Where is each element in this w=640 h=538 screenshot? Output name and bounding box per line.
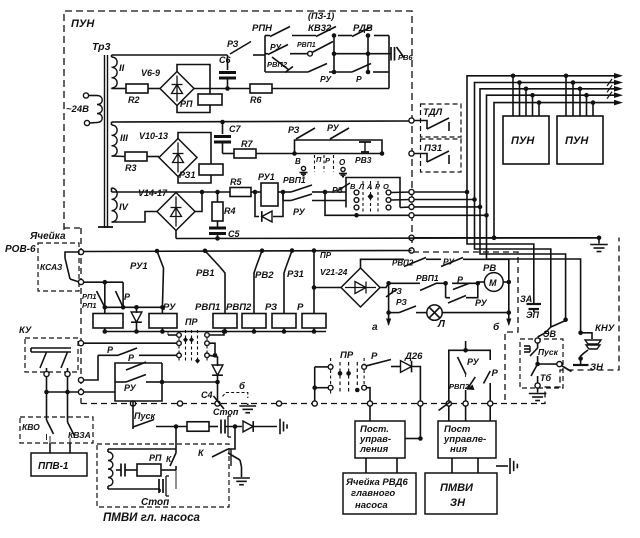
terminal top of Pusk cell (535, 338, 540, 343)
svg-text:насоса: насоса (355, 500, 388, 511)
svg-text:Тр3: Тр3 (92, 41, 111, 53)
svg-text:О: О (339, 158, 346, 167)
arrow b (508, 313, 510, 325)
svg-text:V21-24: V21-24 (320, 267, 348, 277)
svg-text:ТДЛ: ТДЛ (423, 107, 443, 118)
wire R7 to frame (256, 153, 295, 155)
svg-text:ПР: ПР (320, 251, 332, 260)
selector dashed columns (362, 181, 364, 213)
electromagnet ZA EP plates (527, 303, 542, 305)
winding III (112, 125, 118, 156)
svg-text:РВ1: РВ1 (196, 268, 214, 279)
wire bridge V21 top to rail (361, 259, 405, 268)
svg-text:РЗ: РЗ (396, 297, 407, 307)
contact RV6 blade (397, 47, 405, 58)
bridge3 right corner to top wire (195, 192, 202, 212)
wire down from bus line1 to EP (467, 192, 534, 303)
PMVI bottom wire (108, 488, 160, 490)
svg-text:КНУ: КНУ (595, 323, 616, 334)
winding IV (112, 188, 118, 222)
contact Tb bypass blade (557, 362, 562, 367)
selector contact circles left column (354, 190, 359, 195)
capacitor C5 (217, 221, 219, 227)
contact PZ1 (414, 154, 427, 163)
wire Tb bypass (538, 363, 557, 365)
contact RZ row2 blade (294, 139, 296, 141)
svg-text:ЭВ: ЭВ (543, 329, 556, 339)
igniter KNCh symbol (581, 333, 592, 339)
cell TDL dashed box (421, 104, 462, 137)
svg-text:Р: Р (297, 302, 304, 313)
svg-text:РЗ: РЗ (391, 286, 402, 296)
primary winding ~24V (83, 93, 88, 98)
svg-text:ПУН: ПУН (565, 135, 589, 147)
svg-text:ления: ления (359, 444, 389, 455)
ground side right (279, 419, 281, 434)
relay coil RVP1 box (213, 314, 237, 329)
svg-text:б: б (493, 321, 500, 333)
contact RV2 (260, 248, 265, 253)
fuse2 terminal circles right column (362, 365, 367, 370)
connector PR dashed columns (185, 330, 187, 362)
svg-text:РЗ1: РЗ1 (179, 170, 195, 180)
dashed bracket to b (223, 393, 248, 399)
PUN box 1 pins (512, 76, 514, 116)
wire y392 to RU loop (47, 391, 116, 393)
wire winding IV bottom (112, 212, 158, 223)
svg-text:Пуск: Пуск (538, 347, 559, 357)
wire fuse2 feed (314, 367, 316, 401)
wire C6 to R6 (228, 88, 251, 90)
svg-text:РВ6: РВ6 (398, 53, 413, 62)
svg-text:Стоп: Стоп (141, 497, 169, 508)
svg-text:В: В (295, 157, 301, 166)
relay coil RVP2 box (242, 314, 266, 329)
freewheel diode left (136, 307, 138, 313)
svg-text:ЗН: ЗН (590, 362, 604, 373)
wire taps from y121 wire down (314, 121, 316, 140)
cell KSAZ dashed box (38, 243, 79, 291)
svg-text:РПН: РПН (252, 23, 273, 34)
bus A main dc (83, 251, 412, 252)
svg-text:РУ: РУ (327, 123, 340, 133)
svg-text:РУ: РУ (124, 383, 137, 393)
ground below Tb (537, 388, 539, 393)
svg-text:С5: С5 (228, 229, 240, 239)
svg-text:РВП1: РВП1 (195, 302, 220, 313)
relay coil RP loop wires (177, 65, 210, 95)
contact RDV blade (352, 27, 372, 37)
selector output wires (391, 191, 412, 194)
cell PMVI dashed box (97, 444, 229, 507)
contact RU row3 (282, 192, 284, 201)
KU terminals (44, 371, 49, 376)
resistor R7 (223, 153, 235, 155)
contact KVZA (67, 392, 69, 422)
diode to dashed bus (217, 363, 219, 366)
PMVI top wire (108, 448, 176, 450)
ground below thyristor (241, 467, 243, 477)
svg-text:РЗ: РЗ (265, 302, 277, 313)
svg-text:РВП2: РВП2 (226, 302, 252, 313)
svg-text:Р31: Р31 (287, 269, 304, 280)
svg-text:Д26: Д26 (404, 351, 423, 362)
svg-text:РВП2: РВП2 (449, 382, 470, 391)
contact R3 top row (230, 42, 251, 55)
wires KU down (46, 377, 48, 393)
button Stop PMVI (159, 489, 161, 492)
connector PR row3 (177, 353, 182, 358)
contact RZ1 bus (290, 248, 295, 253)
contact TDL (414, 121, 427, 130)
wire to relay R (312, 248, 317, 253)
svg-text:РОВ-6: РОВ-6 (5, 244, 36, 255)
svg-text:РВП1: РВП1 (297, 42, 316, 49)
freewheel diode row3 (253, 190, 258, 195)
contact loop rect (115, 363, 162, 401)
wire rp1 node to RU (105, 306, 163, 308)
svg-text:РУ: РУ (163, 302, 177, 313)
svg-text:Ячейка РВД6: Ячейка РВД6 (345, 477, 408, 488)
svg-text:РУ: РУ (467, 357, 480, 367)
svg-text:V14-17: V14-17 (138, 188, 168, 198)
row2 frame (295, 140, 383, 154)
contact RU1 from bus (155, 249, 160, 254)
group frame (449, 350, 490, 401)
wire down from bus line2 to EV contact (475, 200, 551, 328)
svg-text:РВП1: РВП1 (283, 175, 306, 185)
svg-text:R5: R5 (230, 177, 242, 187)
selector circle V (301, 166, 305, 170)
svg-text:Ячейка: Ячейка (29, 231, 66, 242)
svg-text:РП1: РП1 (82, 292, 97, 301)
contact EV (551, 321, 566, 328)
svg-text:ния: ния (450, 444, 468, 455)
box Yacheika RVD6 (343, 473, 416, 514)
rectifier bridge V10-13 (147, 156, 159, 158)
svg-text:III: III (120, 133, 128, 144)
svg-text:Л: Л (358, 182, 365, 191)
bridge3 bottom to bus B (175, 231, 177, 239)
svg-text:РУ1: РУ1 (130, 261, 148, 272)
svg-text:РВ2: РВ2 (255, 270, 274, 281)
RPN frame top rail with contact gaps (265, 35, 270, 37)
contact RV1 (203, 249, 208, 254)
wire loop to C4 node (162, 381, 218, 383)
RZ blade row2 (296, 128, 315, 139)
wire R6 to frame right (272, 88, 389, 90)
svg-text:КУ: КУ (19, 325, 33, 336)
capacitor C7 (220, 120, 225, 125)
svg-text:ЗА: ЗА (520, 294, 532, 304)
bridge2 to RZ1 coil loop (178, 133, 211, 165)
svg-text:IV: IV (119, 202, 129, 213)
svg-text:РП1: РП1 (82, 301, 97, 310)
svg-text:Тб: Тб (540, 373, 551, 383)
svg-text:ПЗ1: ПЗ1 (424, 143, 442, 154)
wire b branch vertical (508, 282, 510, 313)
svg-text:Р: Р (107, 345, 114, 355)
transformer core bottom bar (98, 226, 113, 228)
svg-text:КСАЗ: КСАЗ (40, 262, 63, 272)
button Pusk with plates (537, 343, 539, 348)
box Post upravleniya 2 (438, 421, 496, 458)
svg-text:Р: Р (128, 353, 135, 363)
svg-text:В: В (350, 182, 356, 191)
resistor ballast (187, 422, 209, 432)
bus tick marks (607, 79, 612, 86)
lamp L (427, 305, 442, 320)
contact R left (122, 282, 124, 307)
relay RV3 time symbol (359, 141, 371, 143)
svg-text:РЗ: РЗ (288, 125, 300, 135)
svg-text:II: II (119, 63, 125, 74)
relay coil RP1 box (93, 314, 123, 329)
svg-text:М: М (489, 278, 497, 288)
selector contact circles right column (386, 190, 391, 195)
wire lamp to b branch (442, 312, 509, 314)
cell border right middle step (413, 252, 518, 404)
blade at bus left of group (439, 402, 451, 411)
wire winding II top (111, 55, 113, 57)
KU contact 2 (61, 352, 68, 368)
svg-text:РП: РП (149, 453, 162, 463)
transformer Tr3 core (104, 55, 106, 228)
connector PR row1 (168, 334, 177, 336)
svg-text:КВ32: КВ32 (308, 23, 332, 34)
thyristor symbol (228, 453, 240, 460)
terminal circles on dashed bus (130, 401, 135, 406)
wire pusk row into PMVI (175, 427, 177, 450)
RPN frame right vertical (388, 36, 390, 73)
svg-text:Р: Р (356, 74, 362, 84)
wire bridge1 to cap node (194, 88, 228, 90)
svg-text:ПР: ПР (185, 317, 198, 327)
resistor R3 (125, 152, 147, 161)
row2 frame bottom rail (295, 153, 383, 155)
wire from KSAZ lower terminal (83, 281, 123, 283)
svg-text:Р: Р (124, 292, 131, 302)
PUN box 2 pins (565, 76, 567, 116)
selector frame row3 (346, 178, 400, 208)
PMVI capacitor (116, 469, 121, 471)
svg-text:ПМВИ гл. насоса: ПМВИ гл. насоса (103, 512, 200, 524)
svg-text:С4: С4 (201, 390, 213, 400)
RPN internal mid wire (265, 53, 268, 55)
RPN frame left vertical (264, 36, 266, 73)
svg-text:РУ: РУ (320, 74, 332, 84)
svg-text:~24В: ~24В (66, 104, 89, 115)
bus B dc negative (176, 237, 599, 240)
box pins 1 (369, 406, 371, 421)
box PPV-1 (31, 453, 87, 476)
wire loop bottom to Pusk (132, 401, 134, 425)
bus C relay return (105, 331, 326, 333)
winding II (112, 57, 118, 88)
PUN box 2 (557, 116, 603, 164)
svg-text:РДВ: РДВ (353, 23, 373, 34)
wire to RPN frame (253, 54, 265, 56)
svg-text:R2: R2 (128, 95, 140, 105)
svg-text:ЭП: ЭП (526, 310, 539, 320)
ground top right (598, 238, 600, 244)
cell PZ1 dashed box (421, 139, 462, 172)
svg-text:R7: R7 (241, 139, 253, 149)
terminal circles on cell boundary (409, 118, 414, 123)
wire row3 bottom via x325 (325, 192, 412, 215)
cell border left lower vertical (80, 228, 82, 404)
output bus staircase wires (414, 76, 617, 192)
wire bus line5 to ground (494, 237, 599, 239)
cell border step to lower left (64, 227, 81, 229)
wire K down (175, 470, 177, 489)
wire down from bus line3 (480, 207, 566, 320)
svg-text:Л: Л (437, 319, 446, 330)
svg-text:Р: Р (371, 351, 378, 362)
svg-text:R6: R6 (250, 95, 262, 105)
svg-text:R4: R4 (224, 206, 236, 216)
ground hanging from bus (247, 404, 249, 406)
svg-text:R3: R3 (125, 163, 137, 173)
wire D26 down to bus (413, 367, 421, 402)
rectifier bridge V14-17 (157, 193, 195, 231)
wire pusk feed y355 (98, 354, 118, 356)
wire bridge V21 feed (314, 287, 341, 289)
contact KV32 blade (316, 27, 336, 37)
relay coil RU1 box (261, 183, 278, 206)
svg-text:ПМВИ: ПМВИ (440, 482, 474, 494)
contact RVP1 with pivot circle (290, 53, 307, 55)
svg-text:V6-9: V6-9 (141, 68, 160, 78)
svg-text:а: а (372, 322, 378, 333)
svg-text:Р: Р (492, 368, 499, 379)
cell border bottom dashed bus (81, 238, 619, 404)
wire x420 below bus (419, 406, 421, 439)
svg-text:РП: РП (180, 99, 193, 109)
wire RU1 out (278, 191, 291, 193)
wire winding II bottom to R2 (111, 87, 113, 90)
svg-text:V10-13: V10-13 (139, 131, 168, 141)
svg-text:РУ: РУ (270, 42, 282, 52)
contact KVO (46, 392, 48, 420)
diode pusk row (243, 421, 253, 432)
wire bridge V21 right to M rail (380, 283, 389, 287)
capacitor C6 (227, 55, 229, 70)
box pins 2 (448, 406, 450, 421)
selector circle O (341, 167, 345, 171)
RPN frame bottom rail with RU and R contacts (265, 71, 308, 73)
svg-text:ПУН: ПУН (71, 18, 95, 30)
svg-text:РЗ: РЗ (227, 39, 239, 49)
svg-text:П: П (316, 155, 322, 164)
relay coil RP PMVI box (137, 464, 161, 476)
cell KU dashed box (25, 338, 78, 372)
cell KVO KVZA dashed box (20, 417, 93, 443)
svg-text:ЗН: ЗН (450, 497, 466, 509)
RPN internal verticals (333, 36, 335, 73)
cell border PUN dashed outline (64, 11, 412, 252)
svg-text:РВ3: РВ3 (355, 155, 372, 165)
RPN internal wire right part (334, 53, 389, 55)
PMVI transformer coil (108, 452, 113, 486)
button Stop with plates (209, 426, 218, 428)
relay coil RZ1 box (199, 164, 223, 175)
arrow a (388, 313, 390, 325)
feed stub up (465, 341, 467, 350)
bus arrows (614, 73, 623, 79)
wire a-branch vertical (388, 283, 390, 312)
wire winding III bottom to R3 (112, 155, 126, 158)
relay coil RZ box (272, 314, 296, 329)
ground side PMVI ZN (496, 465, 508, 467)
wire R5 to RU1 (251, 191, 261, 193)
wire winding III top long to boundary (111, 122, 113, 125)
rectifier bridge V21-24 (341, 268, 380, 307)
relay coil RU box (149, 314, 177, 329)
resistor R4 vertical (215, 190, 220, 195)
svg-text:ППВ-1: ППВ-1 (38, 461, 69, 472)
box PMVI ZN (425, 473, 497, 514)
svg-text:С6: С6 (219, 55, 231, 65)
contact RU bypass (445, 283, 447, 297)
wires to PPV-1 (49, 443, 51, 453)
svg-text:ПУН: ПУН (511, 135, 535, 147)
KU contact 1 (40, 352, 47, 368)
resistor R6 (250, 84, 272, 93)
wire down to K2 (234, 427, 236, 445)
wire down from bus line4 to KNCh (487, 215, 581, 332)
relay RV6 plates (390, 47, 392, 61)
wire from terminal 380 (83, 355, 98, 380)
RU blade row2 (330, 128, 349, 139)
svg-text:РВП1: РВП1 (416, 273, 439, 283)
relay coil RP box (198, 94, 222, 105)
KU internal double line (31, 347, 71, 349)
node ZN (578, 356, 583, 361)
connector PR row2 (78, 341, 83, 346)
svg-text:(ПЗ-1): (ПЗ-1) (308, 11, 334, 21)
contact RP1 (104, 282, 106, 307)
relay coil R box (302, 314, 326, 329)
svg-text:РВП2: РВП2 (267, 60, 288, 69)
svg-text:А: А (366, 182, 372, 191)
svg-text:С7: С7 (229, 124, 241, 134)
terminal circle x81 y380 (78, 377, 83, 382)
svg-text:КВО: КВО (22, 422, 40, 432)
cell Pusk Tb dashed box (520, 339, 563, 388)
PUN box 1 (503, 116, 549, 164)
svg-text:главного: главного (351, 488, 395, 499)
rectifier bridge V6-9 (148, 88, 160, 90)
box Post upravleniya 1 (355, 421, 405, 458)
svg-text:ПР: ПР (340, 350, 354, 361)
svg-text:Стоп: Стоп (213, 407, 239, 417)
wire fuse bottom to bus (367, 388, 371, 401)
svg-text:РУ1: РУ1 (258, 172, 275, 182)
resistor R5 (230, 188, 251, 197)
selector dashes row2 (314, 155, 316, 172)
wire winding IV top (111, 188, 113, 192)
resistor R2 (126, 84, 148, 93)
contact KSAZ (65, 252, 79, 258)
contact Tb (531, 364, 538, 376)
contact RVP2 blade crossing (272, 57, 289, 70)
svg-text:РУ: РУ (293, 207, 306, 217)
svg-text:РУ: РУ (475, 298, 488, 308)
